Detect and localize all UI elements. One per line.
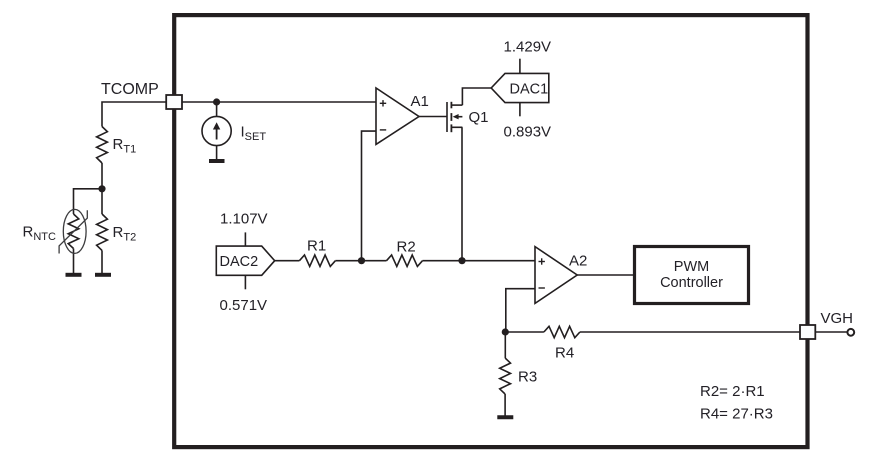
ground RT2 (95, 273, 111, 277)
wire R3 to ground (504, 394, 506, 416)
current source ISET (202, 116, 231, 145)
wire: main top rail TCOMP to A1 + (182, 101, 376, 103)
svg-text:0.893V: 0.893V (504, 124, 552, 141)
svg-text:0.571V: 0.571V (220, 297, 268, 314)
wire A1 out to Q1 gate (419, 116, 447, 118)
ground RNTC (66, 273, 82, 277)
wire: TCOMP pad to left branch (102, 102, 166, 127)
node: R1/R2/A1 feedback (358, 257, 365, 264)
wire node to ISET (216, 102, 218, 116)
resistor RT2 (97, 214, 108, 250)
thermistor RNTC zigzag (68, 214, 79, 249)
svg-text:R4= 27·R3: R4= 27·R3 (700, 406, 773, 423)
ground ISET (209, 159, 225, 163)
svg-text:VGH: VGH (821, 310, 854, 327)
wire R4 to VGH pad (580, 331, 800, 333)
DAC2 (216, 246, 274, 275)
svg-text:R3: R3 (518, 369, 537, 386)
wire Q1 drain to DAC1 (462, 88, 491, 105)
wire DAC1 top stub (519, 59, 521, 74)
wire node down to RT2 (101, 189, 103, 214)
wire Q1 source down to R2 node (461, 127, 463, 260)
wire R2 to node (423, 260, 463, 262)
svg-text:RNTC: RNTC (23, 224, 57, 244)
svg-text:Q1: Q1 (469, 109, 489, 126)
node: ISET tap (213, 98, 220, 105)
ground R3 (497, 415, 513, 419)
thermistor ellipse (63, 209, 86, 253)
wire RT1 to node (101, 163, 103, 189)
wire RT2 to ground (101, 250, 103, 273)
svg-text:ISET: ISET (241, 124, 267, 144)
wire RNTC to ground (73, 249, 75, 274)
wire ISET to ground (216, 146, 218, 160)
svg-text:RT2: RT2 (113, 224, 137, 244)
wire node to R4 (505, 331, 544, 333)
DAC1 (491, 73, 549, 102)
svg-text:R2= 2·R1: R2= 2·R1 (700, 383, 765, 400)
wire DAC2 bottom stub (244, 275, 246, 289)
svg-text:R1: R1 (307, 238, 326, 255)
wire feedback up to A1 - (362, 131, 377, 261)
node: R3/R4 junction (502, 328, 509, 335)
wire R1 to node (335, 260, 361, 262)
svg-text:R2: R2 (397, 239, 416, 256)
op-amp A2 (535, 247, 577, 304)
resistor R2 (387, 255, 423, 266)
svg-text:1.429V: 1.429V (504, 39, 552, 56)
resistor R3 (500, 358, 511, 394)
wire node down to R3 (504, 332, 506, 358)
svg-text:R4: R4 (555, 345, 574, 362)
pin pad TCOMP (166, 95, 182, 109)
wire VGH pad to terminal (815, 331, 847, 333)
svg-text:1.107V: 1.107V (220, 211, 268, 228)
resistor R4 (544, 326, 580, 337)
node: R2/Q1 source (458, 257, 465, 264)
wire DAC2 top stub (244, 232, 246, 246)
svg-text:A2: A2 (569, 252, 587, 269)
svg-text:PWM: PWM (674, 259, 709, 275)
wire A2 - feedback down (506, 289, 535, 332)
wire node to R2 (362, 260, 387, 262)
svg-text:RT1: RT1 (113, 136, 137, 156)
svg-text:DAC2: DAC2 (220, 254, 259, 270)
thermistor strike line (59, 210, 87, 253)
wire node to RNTC branch (74, 189, 103, 214)
svg-text:Controller: Controller (660, 275, 723, 291)
op-amp A1 (376, 88, 419, 144)
resistor R1 (299, 255, 335, 266)
wire DAC1 bottom stub (519, 103, 521, 117)
wire DAC2 to R1 (275, 260, 300, 262)
svg-text:A1: A1 (411, 93, 429, 110)
pin pad VGH (800, 325, 815, 339)
terminal circle VGH (847, 329, 854, 336)
wire A2 out to PWM (577, 274, 633, 276)
transistor Q1 (446, 102, 448, 132)
IC boundary box (174, 15, 807, 447)
svg-text:DAC1: DAC1 (510, 81, 549, 97)
resistor RT1 (97, 127, 108, 164)
svg-text:TCOMP: TCOMP (101, 81, 159, 98)
node: RT1/RT2/RNTC junction (98, 185, 105, 192)
wire node to A2 + (462, 260, 535, 262)
PWM Controller box (635, 247, 749, 304)
